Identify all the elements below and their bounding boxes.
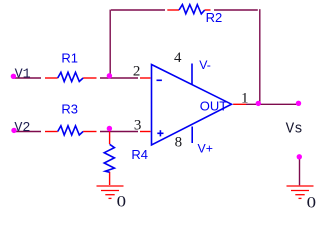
svg-text:R2: R2 (206, 10, 223, 25)
svg-text:0: 0 (307, 193, 317, 211)
svg-text:R4: R4 (131, 147, 148, 162)
svg-text:V+: V+ (198, 142, 213, 156)
svg-text:Vs: Vs (286, 121, 303, 137)
svg-text:4: 4 (174, 50, 182, 66)
svg-text:0: 0 (117, 192, 127, 210)
svg-text:V1: V1 (15, 67, 31, 82)
svg-text:3: 3 (134, 118, 142, 134)
svg-text:2: 2 (133, 64, 141, 80)
svg-text:V2: V2 (14, 121, 30, 136)
svg-text:V-: V- (199, 58, 211, 72)
svg-text:8: 8 (175, 134, 183, 150)
svg-text:R3: R3 (61, 102, 78, 117)
svg-text:1: 1 (241, 91, 249, 107)
svg-text:OUT: OUT (200, 99, 228, 114)
svg-text:R1: R1 (61, 51, 78, 66)
